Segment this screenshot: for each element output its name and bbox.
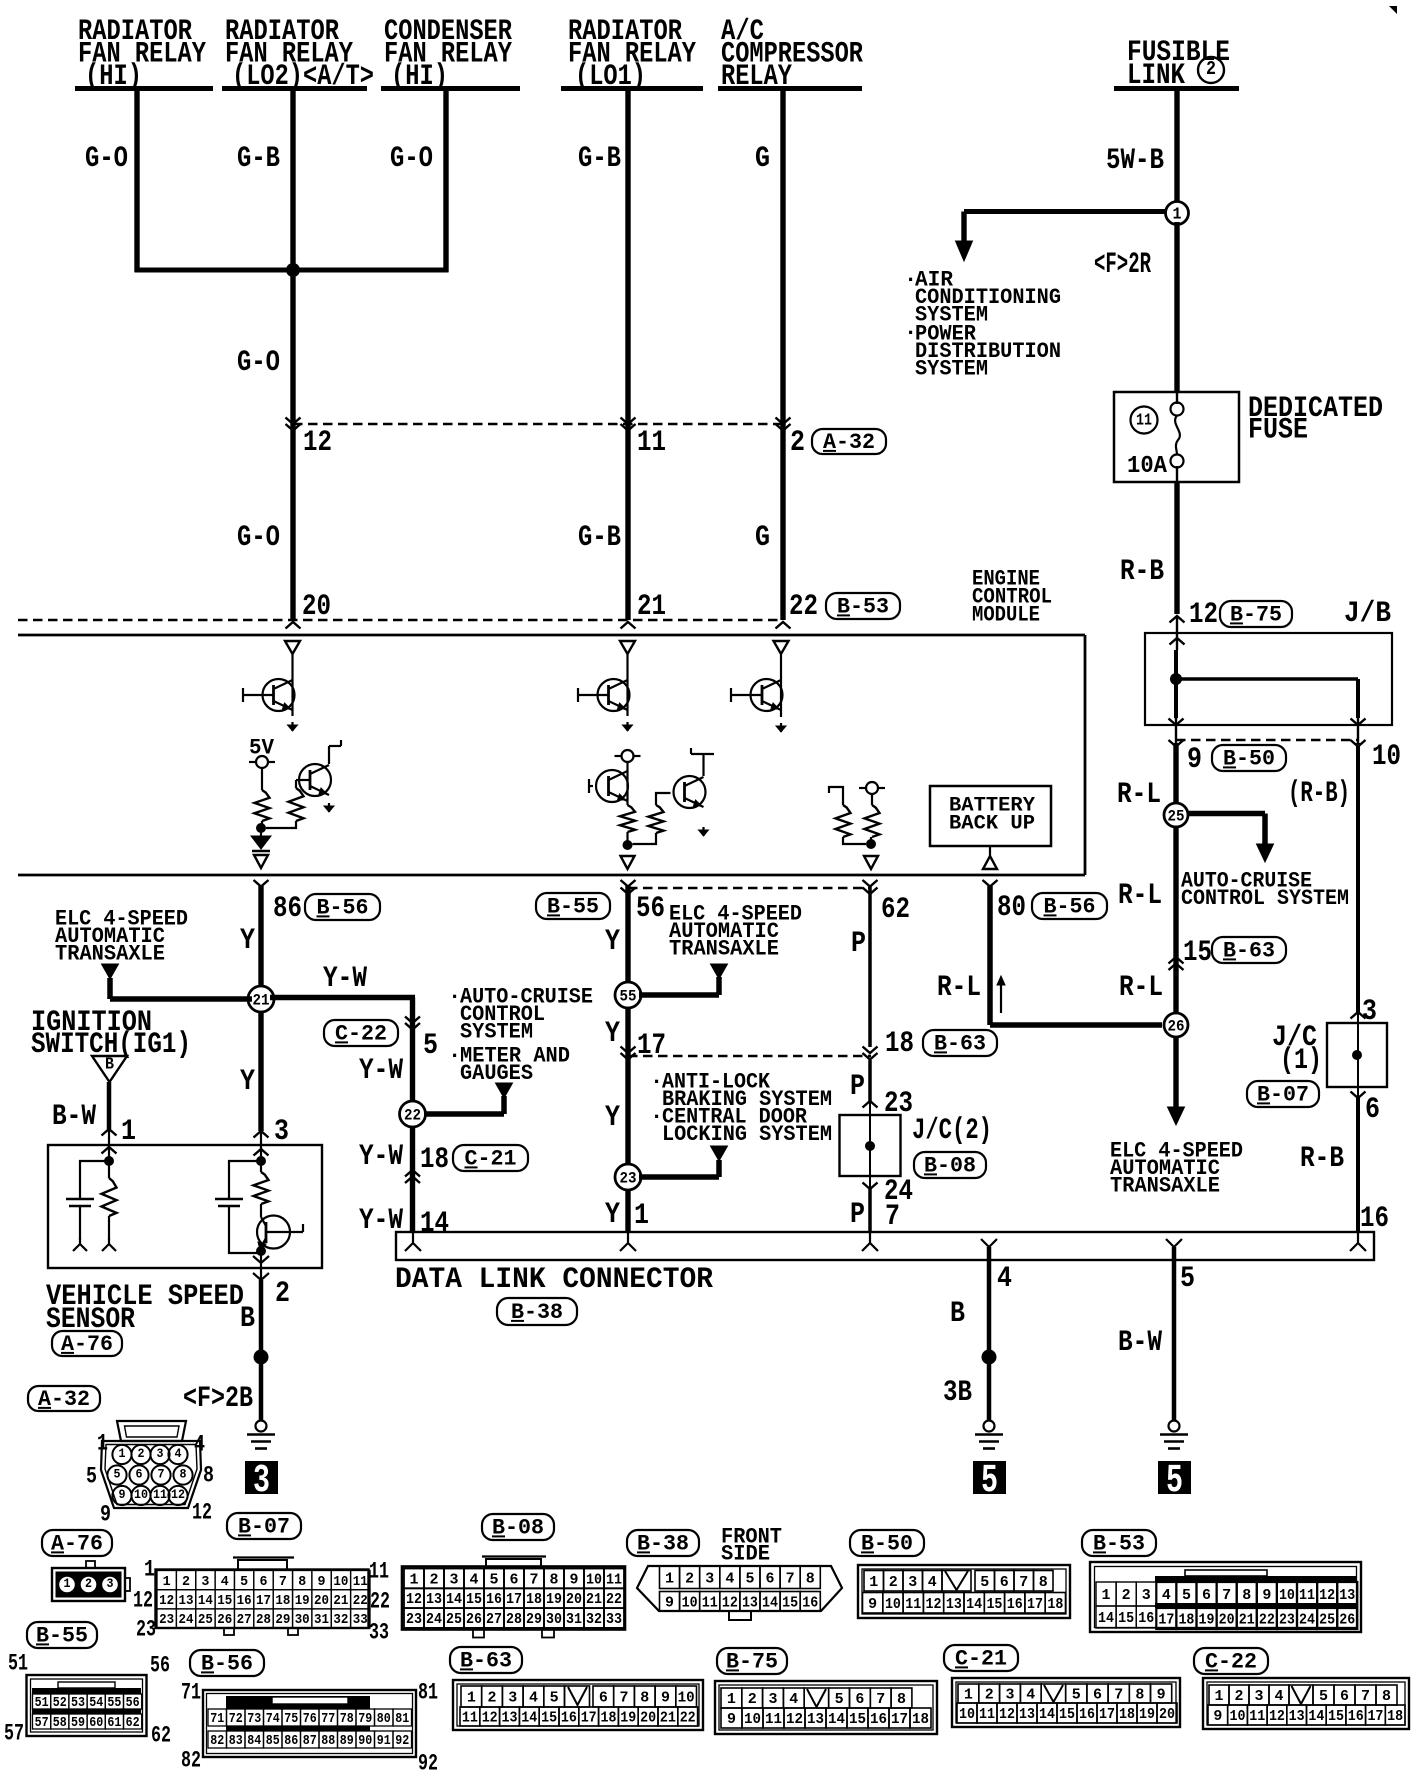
resistor R7: [102, 1178, 117, 1216]
svg-text:26: 26: [466, 1611, 482, 1628]
svg-text:14: 14: [420, 1207, 449, 1241]
svg-text:6: 6: [510, 1571, 519, 1588]
svg-text:15: 15: [849, 1711, 866, 1728]
connector ref B-08 bottom: [482, 1514, 554, 1540]
svg-text:R-B: R-B: [1120, 555, 1164, 589]
svg-text:Y: Y: [240, 1065, 255, 1099]
svg-text:51: 51: [8, 1650, 28, 1676]
svg-text:8: 8: [203, 1462, 214, 1488]
svg-text:10: 10: [1279, 1587, 1295, 1604]
battery backup box: [930, 786, 1051, 846]
svg-text:3: 3: [1255, 1688, 1264, 1705]
svg-text:8: 8: [298, 1574, 306, 1590]
svg-text:16: 16: [1007, 1596, 1023, 1613]
svg-text:2: 2: [889, 1574, 898, 1591]
C1 ground: [73, 1238, 87, 1251]
svg-text:2: 2: [275, 1277, 290, 1311]
svg-text:26: 26: [1168, 1018, 1185, 1036]
svg-text:26: 26: [1339, 1612, 1355, 1629]
resistor R1: [255, 790, 270, 821]
connector ref B-55: [536, 893, 610, 919]
connector ref B-75: [1220, 601, 1292, 627]
svg-text:53: 53: [71, 1696, 85, 1711]
svg-text:6: 6: [599, 1690, 608, 1707]
resistor R4: [649, 805, 664, 833]
connector ref B-07 bottom: [227, 1513, 301, 1539]
chevrons at pin 17: [621, 1047, 636, 1054]
chevron at 62: [863, 888, 878, 895]
chevrons at pin 5: [405, 1017, 420, 1024]
svg-text:57: 57: [4, 1720, 24, 1746]
R7 lower wire: [108, 1216, 110, 1240]
svg-text:15: 15: [541, 1710, 557, 1727]
wire G-O from radiator fan relay HI: [134, 90, 139, 272]
svg-text:14: 14: [1039, 1706, 1055, 1723]
DLC pin 7 person: [862, 1233, 878, 1251]
svg-text:11: 11: [369, 1558, 389, 1584]
svg-text:11: 11: [1136, 411, 1152, 430]
svg-text:7: 7: [530, 1571, 539, 1588]
connector ref B-56: [305, 894, 380, 920]
ground symbol 4: [984, 1421, 995, 1432]
svg-text:R-L: R-L: [1117, 778, 1161, 812]
svg-text:1: 1: [144, 1556, 155, 1582]
svg-text:18: 18: [601, 1710, 617, 1727]
svg-text:17: 17: [1158, 1612, 1174, 1629]
node 22 junction: [400, 1101, 426, 1127]
svg-text:19: 19: [1199, 1612, 1215, 1629]
connector ref A-76 bottom: [42, 1530, 112, 1556]
svg-text:R-L: R-L: [937, 971, 981, 1005]
svg-text:6: 6: [766, 1570, 775, 1587]
svg-text:23: 23: [136, 1616, 156, 1642]
svg-text:62: 62: [881, 893, 910, 927]
arrow down to systems: [956, 241, 973, 261]
svg-text:18: 18: [1119, 1706, 1135, 1723]
svg-text:9: 9: [727, 1711, 736, 1728]
svg-text:2: 2: [1206, 58, 1216, 80]
connector ref A-76: [52, 1331, 122, 1356]
wire <F>2R: [1174, 222, 1179, 392]
svg-text:R-L: R-L: [1119, 971, 1163, 1005]
svg-text:Y: Y: [240, 924, 255, 958]
svg-text:Y-W: Y-W: [323, 962, 367, 996]
resistor R3: [620, 805, 635, 832]
svg-text:9: 9: [868, 1596, 877, 1613]
wire 62 P upper: [868, 886, 872, 1047]
transistor Q3: [598, 679, 630, 711]
arrow down to auto-cruise: [1257, 844, 1274, 862]
JC2 entry chevron: [863, 1101, 878, 1108]
wire 23 down to DLC: [625, 1190, 630, 1232]
svg-text:12: 12: [722, 1594, 738, 1611]
JB entry chevrons: [1170, 616, 1185, 623]
VSS junction dot 3: [256, 1156, 266, 1166]
svg-text:51: 51: [35, 1696, 49, 1711]
5V supply circle: [256, 756, 268, 768]
resistor R5 with lead: [836, 805, 851, 837]
arrow to ELC 4-speed AT left: [102, 964, 119, 979]
svg-text:7: 7: [1361, 1688, 1370, 1705]
svg-text:16: 16: [237, 1593, 252, 1609]
transistor Q6: [751, 679, 783, 711]
fuse number circle 11: [1131, 407, 1158, 434]
small arrow at corner: [1000, 984, 1002, 1013]
connector ref A-32: [812, 429, 886, 454]
svg-text:2: 2: [685, 1570, 694, 1587]
svg-text:BACK UP: BACK UP: [949, 812, 1035, 835]
svg-text:14: 14: [1308, 1708, 1324, 1725]
svg-text:25: 25: [1319, 1612, 1335, 1629]
DLC pin 14 person: [405, 1233, 421, 1251]
supply circle B: [622, 750, 634, 762]
ECM pin 20 entry chevron: [286, 622, 301, 629]
svg-text:18: 18: [526, 1591, 542, 1608]
svg-text:7: 7: [1222, 1587, 1231, 1604]
connector ref B-55 bottom: [27, 1622, 97, 1648]
svg-text:31: 31: [314, 1612, 329, 1628]
junction dot A: [256, 823, 266, 833]
svg-text:4: 4: [194, 1431, 205, 1457]
node 23 junction: [615, 1164, 641, 1190]
svg-text:5: 5: [490, 1571, 499, 1588]
svg-text:2: 2: [488, 1690, 497, 1707]
JC2 junction dot: [865, 1141, 875, 1151]
svg-text:82: 82: [181, 1747, 201, 1770]
svg-text:6: 6: [1093, 1687, 1102, 1704]
svg-text:4: 4: [789, 1691, 798, 1708]
svg-text:10: 10: [959, 1706, 975, 1723]
JC1 internal wire: [1357, 1012, 1359, 1098]
chevrons at pin 18: [405, 1170, 420, 1177]
svg-text:22: 22: [404, 1107, 421, 1125]
capacitor C2: [215, 1198, 243, 1201]
JB exit left Y: [1169, 719, 1184, 726]
svg-text:1: 1: [869, 1574, 878, 1591]
connector ref C-22: [324, 1020, 398, 1046]
open triangle out B: [621, 856, 635, 869]
ECM box bottom line: [18, 874, 1085, 877]
svg-text:DATA LINK CONNECTOR: DATA LINK CONNECTOR: [395, 1263, 713, 1297]
wire to transistor Q3: [626, 654, 628, 680]
wire R5 to junction D: [843, 837, 866, 844]
junction dot D: [866, 839, 876, 849]
svg-text:31: 31: [566, 1611, 582, 1628]
svg-text:12: 12: [926, 1596, 942, 1613]
svg-text:74: 74: [266, 1711, 280, 1727]
svg-text:18: 18: [1387, 1708, 1403, 1725]
wire to transistor Q6: [780, 654, 782, 680]
svg-text:20: 20: [566, 1591, 582, 1608]
connector B-56 22-pin: [203, 1690, 416, 1757]
wire 80 R-L: [987, 886, 993, 1025]
svg-text:19: 19: [1139, 1706, 1155, 1723]
svg-text:14: 14: [521, 1710, 537, 1727]
connector ref B-38 bottom: [627, 1530, 699, 1556]
svg-text:5: 5: [423, 1029, 438, 1063]
svg-text:2: 2: [1235, 1688, 1244, 1705]
svg-text:J/C(2): J/C(2): [912, 1114, 992, 1148]
wire 55 down: [625, 1008, 630, 1164]
svg-text:8: 8: [1135, 1687, 1144, 1704]
ECM pin 22 entry chevron: [776, 622, 791, 629]
svg-text:10: 10: [678, 1690, 695, 1707]
connector ref B-53 bottom: [1082, 1530, 1156, 1556]
svg-text:4: 4: [1275, 1688, 1284, 1705]
svg-text:9: 9: [1213, 1708, 1222, 1725]
svg-text:20: 20: [314, 1593, 329, 1609]
svg-text:73: 73: [247, 1711, 261, 1727]
svg-text:21: 21: [1239, 1612, 1255, 1629]
JC2 internal wire: [869, 1115, 871, 1189]
svg-text:20: 20: [1159, 1706, 1175, 1723]
svg-text:21: 21: [637, 590, 666, 624]
connector chevrons at 2: [776, 418, 791, 425]
svg-text:G-B: G-B: [578, 521, 621, 555]
svg-text:28: 28: [256, 1612, 271, 1628]
capacitor C1: [66, 1198, 94, 1201]
svg-text:15: 15: [466, 1591, 482, 1608]
svg-text:60: 60: [89, 1716, 103, 1731]
svg-text:TRANSAXLE: TRANSAXLE: [669, 937, 779, 962]
connector B-50 18-pin: [858, 1565, 1070, 1618]
dashed line at JB exit: [1176, 739, 1358, 742]
svg-text:5: 5: [86, 1463, 97, 1489]
connector B-53 26-pin: [1090, 1562, 1361, 1632]
wire 5V to resistor R1: [261, 768, 263, 790]
wire R-B below fuse: [1174, 482, 1179, 614]
connector chevrons at 11: [621, 418, 636, 425]
svg-text:24: 24: [179, 1612, 194, 1628]
svg-text:3: 3: [107, 1576, 114, 1591]
svg-text:90: 90: [358, 1733, 372, 1749]
svg-text:B-W: B-W: [1118, 1326, 1162, 1360]
svg-text:32: 32: [333, 1612, 348, 1628]
svg-text:12: 12: [133, 1587, 153, 1613]
svg-text:15: 15: [1118, 1610, 1134, 1627]
svg-text:24: 24: [426, 1611, 442, 1628]
svg-text:75: 75: [284, 1711, 298, 1727]
svg-text:9: 9: [1187, 743, 1202, 777]
ECM pin 80 exit Y: [983, 880, 998, 887]
svg-text:61: 61: [107, 1716, 121, 1731]
VSS pin2 exit Ys: [260, 1251, 262, 1280]
svg-text:12: 12: [192, 1499, 212, 1525]
svg-text:11: 11: [905, 1596, 921, 1613]
R7 ground: [102, 1238, 116, 1251]
JB left wire: [1174, 650, 1178, 718]
open triangle out A: [254, 855, 268, 868]
connector ref B-63 bottom: [450, 1647, 522, 1673]
svg-text:1: 1: [1102, 1587, 1111, 1604]
svg-text:72: 72: [229, 1711, 243, 1727]
svg-text:88: 88: [321, 1733, 335, 1749]
svg-text:7: 7: [786, 1570, 795, 1587]
wire 62 P mid: [868, 1060, 872, 1102]
Q5 emitter arrow: [702, 827, 704, 836]
svg-text:13: 13: [742, 1594, 758, 1611]
chevrons at pin 15: [1169, 957, 1184, 964]
wire (R-B) down: [1356, 743, 1360, 1012]
svg-text:7: 7: [158, 1466, 165, 1481]
ECM box right edge: [1084, 635, 1087, 875]
ground ref black 5 right: [1158, 1461, 1191, 1494]
svg-text:G-B: G-B: [237, 142, 280, 176]
wire G-B from radiator fan relay LO2: [290, 90, 295, 620]
JB internal horizontal wire: [1176, 677, 1358, 681]
svg-text:10: 10: [1230, 1708, 1246, 1725]
transistor Q2: [299, 764, 331, 796]
svg-text:17: 17: [506, 1591, 522, 1608]
connector A-76 3-pin: [86, 1561, 95, 1568]
arrow to ELC mid: [711, 964, 728, 979]
svg-text:71: 71: [210, 1711, 224, 1727]
svg-text:3: 3: [908, 1574, 917, 1591]
wire G-B from radiator fan relay LO1: [625, 90, 630, 620]
svg-text:10: 10: [586, 1571, 602, 1588]
svg-text:TRANSAXLE: TRANSAXLE: [1110, 1174, 1220, 1199]
ground symbol 3: [256, 1421, 267, 1432]
svg-text:1: 1: [97, 1430, 108, 1456]
svg-text:2: 2: [1122, 1587, 1131, 1604]
svg-text:22: 22: [1259, 1612, 1275, 1629]
svg-text:18: 18: [1178, 1612, 1194, 1629]
connector C-22 18-pin: [1203, 1678, 1409, 1729]
JB exit right Y: [1351, 719, 1366, 726]
svg-text:13: 13: [1339, 1587, 1355, 1604]
svg-text:82: 82: [210, 1733, 224, 1749]
ECM dashed bottom segment: [628, 887, 871, 890]
svg-text:7: 7: [620, 1690, 629, 1707]
svg-text:24: 24: [1299, 1612, 1315, 1629]
svg-text:17: 17: [256, 1593, 271, 1609]
svg-text:15: 15: [1328, 1708, 1344, 1725]
svg-text:54: 54: [89, 1696, 103, 1711]
dedicated fuse box: [1114, 392, 1239, 482]
svg-text:12: 12: [303, 426, 332, 460]
svg-text:1: 1: [665, 1570, 674, 1587]
svg-text:1: 1: [410, 1571, 419, 1588]
wire 5W-B from fusible link: [1174, 90, 1179, 204]
svg-text:12: 12: [159, 1593, 174, 1609]
connector ref B-50 bottom: [850, 1530, 924, 1556]
svg-text:10: 10: [134, 1487, 148, 1502]
svg-text:G-O: G-O: [390, 142, 433, 176]
svg-text:81: 81: [418, 1679, 438, 1705]
thick wire to ELC arrow mid: [639, 992, 719, 998]
junction dot B: [623, 840, 633, 850]
svg-text:14: 14: [828, 1711, 845, 1728]
svg-text:4: 4: [529, 1690, 538, 1707]
svg-text:18: 18: [275, 1593, 290, 1609]
svg-text:11: 11: [606, 1571, 622, 1588]
svg-text:12: 12: [406, 1591, 422, 1608]
wire B-W ignition: [107, 1082, 112, 1129]
battery backup output triangle: [989, 846, 991, 857]
svg-text:11: 11: [1249, 1708, 1265, 1725]
svg-text:27: 27: [486, 1611, 502, 1628]
VSS pin1 entry chevrons: [102, 1129, 117, 1136]
Q3 emitter arrow: [626, 722, 628, 731]
ECM pin 86 exit Y: [254, 880, 269, 887]
svg-text:1: 1: [163, 1574, 171, 1590]
svg-text:8: 8: [1242, 1587, 1251, 1604]
svg-text:9: 9: [661, 1690, 670, 1707]
svg-text:12: 12: [171, 1487, 185, 1502]
connector ref B-08 mid: [914, 1152, 986, 1178]
C1 lower wire: [79, 1206, 81, 1240]
svg-text:58: 58: [53, 1716, 67, 1731]
svg-text:59: 59: [71, 1716, 85, 1731]
wire R4 to junction B: [633, 833, 657, 844]
svg-text:19: 19: [295, 1593, 310, 1609]
connector B-55 12-pin: [27, 1675, 147, 1736]
svg-text:8: 8: [806, 1570, 815, 1587]
svg-text:17: 17: [637, 1029, 666, 1063]
svg-text:13: 13: [1289, 1708, 1305, 1725]
svg-text:14: 14: [198, 1593, 213, 1609]
svg-text:16: 16: [870, 1711, 887, 1728]
svg-text:16: 16: [486, 1591, 502, 1608]
svg-text:5: 5: [980, 1574, 989, 1591]
wire G from A/C compressor relay: [780, 90, 785, 620]
svg-text:8: 8: [1039, 1574, 1048, 1591]
node 25 junction: [1164, 803, 1188, 827]
svg-text:22: 22: [680, 1710, 696, 1727]
svg-text:18: 18: [885, 1027, 914, 1061]
transistor Q1: [263, 679, 295, 711]
svg-text:5: 5: [1072, 1687, 1081, 1704]
node 1 circle: [1166, 202, 1189, 225]
svg-text:87: 87: [303, 1733, 317, 1749]
data link connector box: [396, 1232, 1374, 1260]
svg-text:57: 57: [35, 1716, 49, 1731]
svg-text:6: 6: [1365, 1093, 1380, 1127]
node 55 junction: [615, 982, 641, 1008]
wire B VSS: [259, 1280, 264, 1421]
svg-text:9: 9: [119, 1487, 126, 1502]
wire Y-W below 22: [410, 1126, 415, 1232]
svg-text:30: 30: [295, 1612, 310, 1628]
svg-text:30: 30: [546, 1611, 562, 1628]
svg-text:2: 2: [138, 1446, 145, 1461]
svg-text:62: 62: [151, 1722, 171, 1748]
wire node21 to Y-W branch: [270, 995, 415, 1001]
svg-text:1: 1: [467, 1690, 476, 1707]
svg-text:10: 10: [885, 1596, 901, 1613]
VSS cap2 wire: [229, 1161, 261, 1199]
JC1 exit chevron: [1351, 1092, 1366, 1099]
svg-text:71: 71: [181, 1679, 201, 1705]
svg-text:1: 1: [634, 1199, 649, 1233]
svg-text:Y-W: Y-W: [359, 1140, 403, 1174]
svg-text:G: G: [755, 521, 770, 555]
svg-text:17: 17: [1367, 1708, 1383, 1725]
svg-text:2: 2: [430, 1571, 439, 1588]
svg-text:11: 11: [353, 1574, 368, 1590]
svg-text:15: 15: [1059, 1706, 1075, 1723]
ground ref black 5: [973, 1461, 1006, 1494]
svg-text:3: 3: [450, 1571, 459, 1588]
connector B-08 33-pin: [482, 1555, 546, 1557]
Q2 emitter arrow: [328, 803, 330, 812]
svg-text:B-W: B-W: [52, 1100, 96, 1134]
svg-text:<F>2R: <F>2R: [1094, 248, 1151, 282]
svg-text:4: 4: [221, 1574, 229, 1590]
svg-text:4: 4: [725, 1570, 734, 1587]
svg-text:9: 9: [318, 1574, 326, 1590]
svg-text:86: 86: [273, 892, 302, 926]
